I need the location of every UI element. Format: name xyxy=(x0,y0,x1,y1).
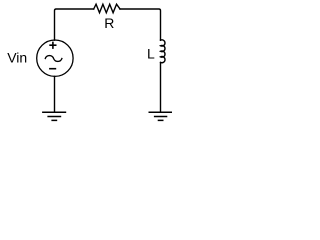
plus sign of source xyxy=(49,42,56,49)
AC source U1 circle xyxy=(37,40,73,76)
svg-text:Vin: Vin xyxy=(7,50,27,66)
sine symbol inside source xyxy=(45,56,62,62)
minus sign of source xyxy=(49,68,56,70)
wire: inductor bottom to right ground xyxy=(160,63,162,112)
ground (left, below source) xyxy=(42,112,66,120)
wire: source bottom to left ground xyxy=(54,76,56,112)
inductor L coil xyxy=(161,40,166,63)
svg-text:R: R xyxy=(104,15,114,31)
svg-text:L: L xyxy=(147,45,155,61)
wire: resistor right to inductor top (with corner) xyxy=(120,9,161,40)
ground (right, below inductor) xyxy=(149,112,173,120)
resistor R xyxy=(94,4,120,13)
wire: source top to resistor left (with corner) xyxy=(55,9,94,40)
